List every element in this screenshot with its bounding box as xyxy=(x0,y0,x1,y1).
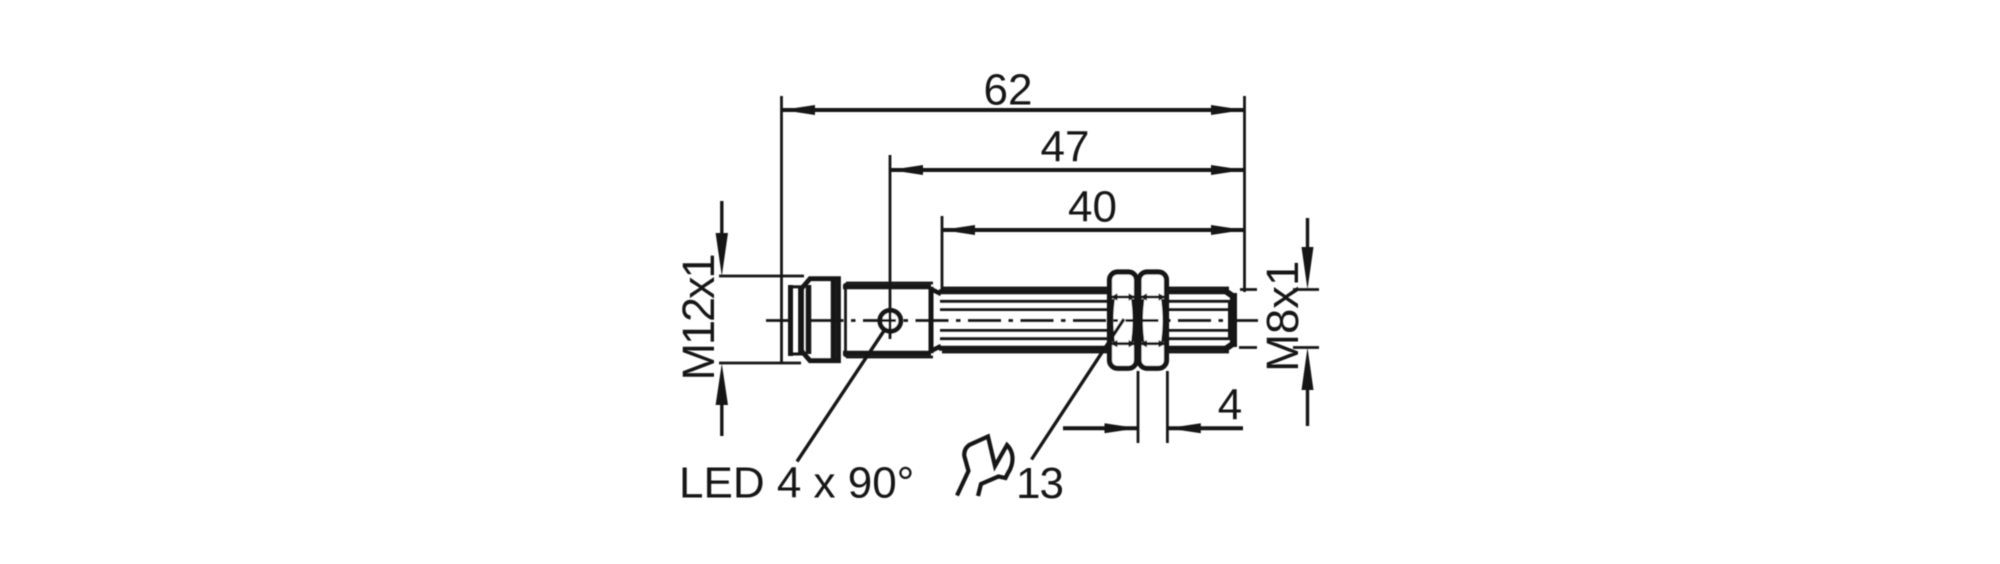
svg-text:LED 4 x 90°: LED 4 x 90° xyxy=(679,459,914,508)
svg-text:M8x1: M8x1 xyxy=(1257,261,1308,372)
svg-text:M12x1: M12x1 xyxy=(673,255,724,380)
svg-text:47: 47 xyxy=(1041,123,1090,172)
svg-text:40: 40 xyxy=(1068,183,1117,232)
svg-text:4: 4 xyxy=(1218,381,1242,430)
svg-text:13: 13 xyxy=(1016,459,1063,508)
svg-text:62: 62 xyxy=(984,66,1033,115)
